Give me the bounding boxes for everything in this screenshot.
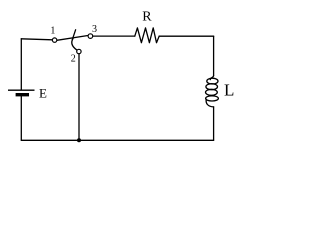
svg-text:E: E [39,86,47,101]
svg-text:L: L [224,80,234,99]
svg-text:3: 3 [92,24,97,35]
svg-text:R: R [142,10,152,25]
svg-text:2: 2 [71,54,76,65]
svg-text:1: 1 [50,25,55,36]
